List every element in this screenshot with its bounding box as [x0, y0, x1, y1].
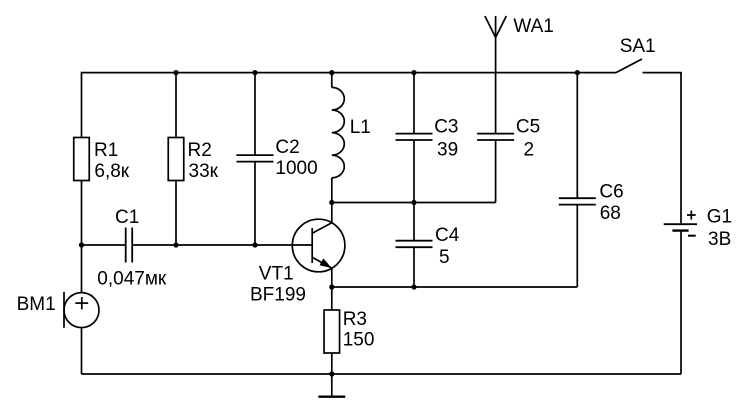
resistor R2 [168, 138, 184, 246]
capacitor C5 [477, 134, 514, 203]
wire base net left segment (node to C1) [82, 244, 126, 246]
svg-text:3В: 3В [708, 229, 731, 250]
svg-text:C5: C5 [516, 117, 540, 138]
label C6 68 [599, 182, 623, 224]
svg-text:C3: C3 [434, 117, 458, 138]
svg-text:SA1: SA1 [620, 36, 656, 57]
label G1 3B [707, 206, 732, 249]
wire collector lead [331, 203, 333, 223]
wire R3 top lead [331, 287, 333, 310]
svg-text:0,047мк: 0,047мк [97, 269, 167, 290]
svg-text:1000: 1000 [275, 158, 317, 179]
junction dot collector node [329, 200, 334, 205]
svg-text:WA1: WA1 [513, 16, 553, 37]
wire from battery - terminal to bottom bus [680, 232, 682, 375]
wire C3 top lead [413, 73, 415, 134]
wire bottom bus [82, 373, 682, 375]
label C3 39 [434, 117, 458, 161]
wire BM1 bottom to bottom bus [81, 328, 83, 374]
svg-text:33к: 33к [189, 161, 219, 182]
svg-text:150: 150 [343, 330, 375, 351]
junction dot C6 top [575, 70, 580, 75]
switch SA1 [616, 59, 642, 73]
svg-text:R3: R3 [343, 309, 367, 330]
svg-text:R2: R2 [188, 140, 212, 161]
resistor R1 [74, 138, 90, 246]
label VT1 BF199 [250, 264, 306, 306]
svg-text:R1: R1 [94, 140, 118, 161]
wire base net right segment (C1 to VT1 base) [132, 244, 312, 246]
svg-text:2: 2 [524, 140, 535, 161]
capacitor C3 [396, 134, 433, 140]
wire emitter net bus (to C4 bottom and C6 bottom) [332, 286, 578, 288]
label R1 6,8к [94, 140, 130, 182]
junction dot C2 top [252, 70, 257, 75]
junction dot emitter node [329, 284, 334, 289]
capacitor C6 [559, 198, 596, 204]
wire collector node bus (to C3/C4 and C5) [332, 202, 496, 204]
junction dot base net left [79, 242, 84, 247]
label C2 1000 [275, 137, 317, 179]
junction dot C3-C4 node [411, 200, 416, 205]
wire C2 branch from top bus [254, 73, 256, 156]
transistor VT1 [292, 219, 345, 272]
svg-text:68: 68 [600, 203, 621, 224]
junction dot C2 bottom [252, 242, 257, 247]
svg-text:C4: C4 [435, 225, 460, 246]
capacitor C1 [126, 228, 133, 263]
wire C3 bottom lead [413, 140, 415, 203]
ground [318, 374, 345, 397]
junction dot R2 top [173, 70, 178, 75]
svg-text:L1: L1 [350, 117, 371, 138]
svg-text:C1: C1 [115, 207, 139, 228]
resistor R3 [324, 310, 340, 374]
junction dot R2 bottom [173, 242, 178, 247]
svg-text:5: 5 [439, 247, 450, 268]
svg-text:BF199: BF199 [250, 284, 306, 305]
capacitor C4 [396, 203, 433, 288]
capacitor C2 [237, 155, 274, 162]
label R3 150 [343, 309, 375, 350]
svg-text:BM1: BM1 [17, 294, 56, 315]
label C5 2 [516, 117, 540, 161]
junction dot R3 bottom [329, 371, 334, 376]
svg-text:G1: G1 [707, 206, 732, 227]
svg-text:C6: C6 [599, 182, 623, 203]
junction dot L1 top [329, 70, 334, 75]
wire L1 top lead [331, 73, 333, 88]
microphone BM1 [64, 292, 99, 328]
svg-text:6,8к: 6,8к [94, 161, 129, 182]
wire top bus from left corner to SA1 left contact [82, 73, 617, 138]
svg-text:C2: C2 [275, 137, 299, 158]
svg-text:39: 39 [437, 140, 458, 161]
junction dot C3 top [411, 70, 416, 75]
wire R2 branch from top bus [175, 73, 177, 138]
wire emitter lead [331, 268, 333, 287]
wire left rail from C1 node to microphone BM1 [81, 245, 83, 293]
label R2 33к [188, 140, 219, 182]
wire L1 bottom lead to collector node [331, 178, 333, 203]
wire C6 top lead [576, 73, 578, 199]
wire C6 bottom lead [576, 205, 578, 287]
battery G1 [664, 211, 697, 236]
label C1 0,047мк [97, 207, 167, 290]
inductor L1 [332, 87, 345, 177]
label C4 5 [435, 225, 460, 268]
wire from SA1 right contact to battery + terminal [643, 73, 682, 224]
antenna WA1 [485, 16, 506, 134]
svg-text:VT1: VT1 [259, 264, 294, 285]
junction dot C4 bottom [411, 284, 416, 289]
wire C2 bottom to base wire [254, 162, 256, 245]
